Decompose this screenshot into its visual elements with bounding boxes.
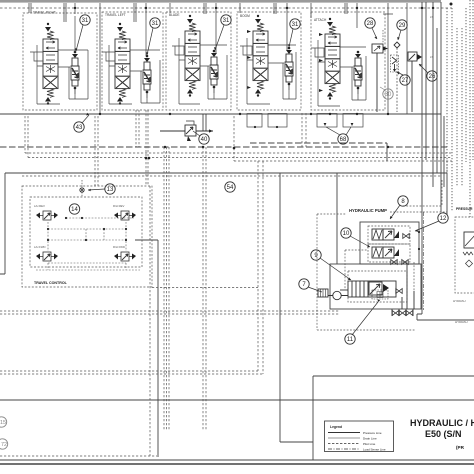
svg-text:11: 11 — [347, 337, 354, 343]
svg-text:HYDRAU: HYDRAU — [453, 299, 466, 303]
svg-text:L/H FWD: L/H FWD — [34, 245, 46, 249]
svg-text:Pressure Line: Pressure Line — [363, 431, 382, 435]
svg-text:TRAVEL CONTROL: TRAVEL CONTROL — [34, 281, 68, 285]
svg-text:43: 43 — [76, 125, 83, 131]
svg-text:10: 10 — [343, 231, 350, 237]
svg-text:BOOM: BOOM — [240, 14, 250, 18]
svg-text:BLADE: BLADE — [169, 13, 179, 17]
svg-text:15: 15 — [0, 420, 6, 426]
svg-text:Load Sense Line: Load Sense Line — [363, 448, 386, 452]
svg-text:29: 29 — [399, 23, 406, 29]
svg-text:Legend: Legend — [330, 425, 342, 429]
svg-text:R/H REV: R/H REV — [113, 204, 124, 208]
svg-text:ATTACH: ATTACH — [314, 18, 327, 22]
svg-text:54: 54 — [227, 185, 234, 191]
svg-text:31: 31 — [152, 21, 159, 27]
svg-text:31: 31 — [292, 22, 299, 28]
svg-text:13: 13 — [107, 187, 114, 193]
svg-text:TRAVEL RIGHT: TRAVEL RIGHT — [33, 11, 56, 15]
svg-text:(PR: (PR — [456, 445, 465, 450]
svg-text:L/H REV: L/H REV — [34, 204, 45, 208]
svg-text:28: 28 — [367, 21, 374, 27]
svg-text:LS: LS — [430, 55, 433, 59]
svg-text:12: 12 — [440, 216, 447, 222]
svg-text:Pilot Line: Pilot Line — [363, 442, 376, 446]
svg-text:14: 14 — [71, 207, 78, 213]
svg-text:40: 40 — [201, 137, 208, 143]
svg-text:30: 30 — [385, 92, 392, 98]
svg-text:R/H FWD: R/H FWD — [113, 245, 125, 249]
svg-text:68: 68 — [340, 137, 347, 143]
svg-text:31: 31 — [82, 18, 89, 24]
svg-text:TRAVEL LEFT: TRAVEL LEFT — [105, 13, 126, 17]
svg-text:27: 27 — [402, 78, 409, 84]
svg-text:31: 31 — [223, 18, 230, 24]
svg-text:E50 (S/N: E50 (S/N — [425, 429, 462, 439]
svg-text:Drain Line: Drain Line — [363, 437, 377, 441]
svg-text:HYDRAULIC PUMP: HYDRAULIC PUMP — [349, 208, 387, 213]
svg-text:26: 26 — [429, 74, 436, 80]
svg-text:HYDRAU: HYDRAU — [455, 320, 468, 324]
svg-text:PRESSUR: PRESSUR — [456, 207, 473, 211]
svg-text:HYDRAULIC / H: HYDRAULIC / H — [410, 418, 474, 428]
svg-text:LS: LS — [430, 15, 433, 19]
svg-text:72: 72 — [1, 442, 7, 448]
